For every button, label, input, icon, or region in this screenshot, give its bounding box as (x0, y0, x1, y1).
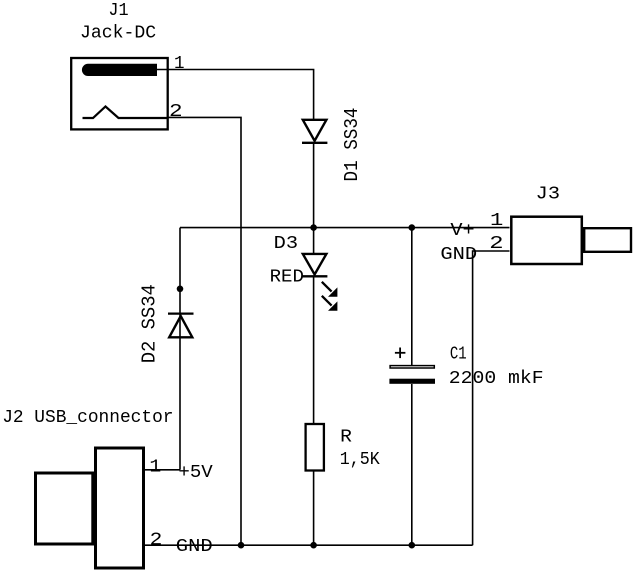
wire +5V stub from J2 pin1 (145, 469, 180, 471)
capacitor C1 bottom plate (solid) (389, 379, 435, 384)
svg-text:D2 SS34: D2 SS34 (139, 284, 161, 363)
connector J1 barrel pin (thick bar) (82, 64, 157, 76)
svg-text:D1 SS34: D1 SS34 (341, 108, 363, 182)
svg-text:1: 1 (149, 456, 161, 478)
node junction GND/J1-pin2 (238, 542, 245, 549)
wire J1 pin2 right then down to GND junction (167, 117, 241, 545)
svg-text:RED: RED (270, 267, 304, 288)
svg-text:V+: V+ (450, 220, 474, 241)
wire C1 bottom to GND line (411, 384, 413, 545)
capacitor C1 top plate (outlined) (390, 366, 434, 368)
node junction GND/C1 (409, 542, 416, 549)
svg-text:1: 1 (174, 52, 185, 74)
wire R bottom to GND line (313, 471, 315, 545)
diode D1 cathode bar (302, 142, 327, 144)
svg-text:J1: J1 (108, 0, 128, 21)
wire left riser from V+ corner down to +5V (179, 228, 181, 470)
svg-text:+5V: +5V (178, 462, 212, 483)
svg-text:D3: D3 (274, 233, 298, 254)
resistor R body (306, 424, 324, 471)
svg-text:J3: J3 (536, 184, 560, 205)
LED D3 cathode bar (302, 275, 327, 277)
node junction GND/R (310, 542, 317, 549)
diode D2 triangle (169, 316, 192, 337)
connector J1 body (71, 58, 168, 129)
wire D3 cathode down to R top (313, 276, 315, 424)
capacitor C1 plus sign (395, 348, 406, 359)
wire D1 cathode to V+ junction to D3 anode (313, 143, 315, 254)
svg-text:2: 2 (150, 529, 163, 551)
svg-text:GND: GND (440, 244, 477, 265)
svg-text:2: 2 (169, 100, 183, 122)
svg-text:C1: C1 (450, 343, 467, 364)
LED D3 triangle (303, 254, 327, 275)
LED D3 light arrow 2 (322, 296, 337, 311)
wire GND bottom rail (145, 544, 473, 546)
svg-text:Jack-DC: Jack-DC (80, 22, 156, 43)
svg-text:2: 2 (489, 232, 503, 254)
wire J1 pin1 to corner above D1 (155, 70, 314, 120)
wire net V+ horizontal (180, 227, 510, 229)
connector J3 body (511, 217, 582, 264)
node junction V+/D1/D3 (310, 224, 317, 231)
LED D3 light arrow 1 (322, 282, 337, 297)
diode D2 cathode bar (168, 312, 194, 314)
connector J3 plug (584, 228, 631, 252)
svg-text:2200 mkF: 2200 mkF (449, 368, 544, 389)
node junction V+/C1 (409, 224, 416, 231)
connector J2 left block (36, 473, 93, 544)
wire C1 top to V+ junction (411, 228, 413, 366)
connector J1 chevron contact (83, 107, 168, 119)
svg-text:R: R (340, 426, 352, 447)
svg-text:J2 USB_connector: J2 USB_connector (2, 407, 173, 428)
svg-text:GND: GND (176, 536, 213, 557)
diode D1 triangle (303, 120, 327, 141)
wire right riser J3 pin2 to GND rail (473, 251, 510, 545)
connector J2 tall body (96, 448, 144, 568)
node dot above D2 (177, 286, 184, 293)
svg-text:1: 1 (490, 209, 503, 231)
svg-text:1,5K: 1,5K (340, 449, 381, 470)
